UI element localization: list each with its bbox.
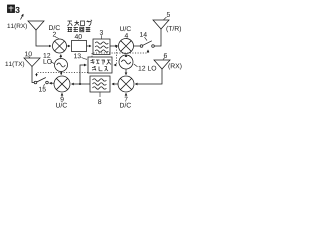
arrow oscillatorR to mixer7 [125, 69, 127, 75]
dashed control line to switch14 [92, 50, 148, 57]
junction dot [79, 83, 81, 85]
dashed tap from top row into carrier sense box [114, 47, 117, 65]
mixer U7 (D/C) [118, 76, 134, 92]
mixer U9 (U/C) [54, 76, 70, 92]
wire antenna6 to mixer7 [135, 69, 162, 84]
arrow oscillatorL to mixer9 [60, 72, 62, 75]
mixer U2 (D/C) [53, 39, 67, 53]
mixer U4 (U/C) [119, 39, 134, 54]
filter F3 [93, 39, 110, 55]
wire filter3 to mixer4, junction node [110, 45, 118, 47]
dashed control line to switch15 [37, 73, 89, 77]
wire switch14 to antenna5 [154, 29, 161, 46]
wire mixer4 to switch14 [134, 45, 141, 47]
switch SW14 [140, 45, 143, 48]
センス pseudo glyphs [92, 66, 108, 71]
arrow oscillatorL to mixer2 [60, 55, 62, 59]
oscillator 12 LO (right) [119, 55, 133, 69]
キャリア pseudo glyphs [91, 59, 112, 65]
switch SW15 [34, 81, 37, 84]
carrier sense input from bottom row [80, 65, 86, 84]
filter F8 [90, 76, 110, 92]
antenna 6 (RX) [154, 60, 170, 69]
label 遅延回路 (pseudo glyphs) [68, 27, 91, 32]
antenna 11(RX) [28, 21, 44, 30]
analog circuit box 40 [72, 41, 87, 52]
wire antenna11RX to mixer2 [36, 30, 51, 46]
figure title 図3 [8, 5, 15, 13]
wire filter8 to mixer9, junction [72, 83, 91, 85]
antenna 5 (T/R) [153, 20, 169, 29]
arrow oscillatorR to mixer4 [125, 54, 127, 57]
wire mixer2 to box40 [67, 45, 71, 47]
wire antenna11TX to switch15 [32, 67, 34, 83]
wire mixer7 to filter8 [112, 83, 118, 85]
junction dot [115, 45, 117, 47]
carrier sense box 13 [88, 57, 112, 73]
label アナログ (pseudo glyphs) [67, 20, 92, 26]
wire switch15 to mixer9 (arrow pointing left out of mixer into switch) [50, 82, 54, 84]
antenna 11(TX) [24, 58, 40, 67]
leader arrow above RX antenna [21, 14, 24, 19]
wire box40 to filter3 [87, 45, 92, 47]
oscillator 12 LO (left) [55, 59, 68, 72]
